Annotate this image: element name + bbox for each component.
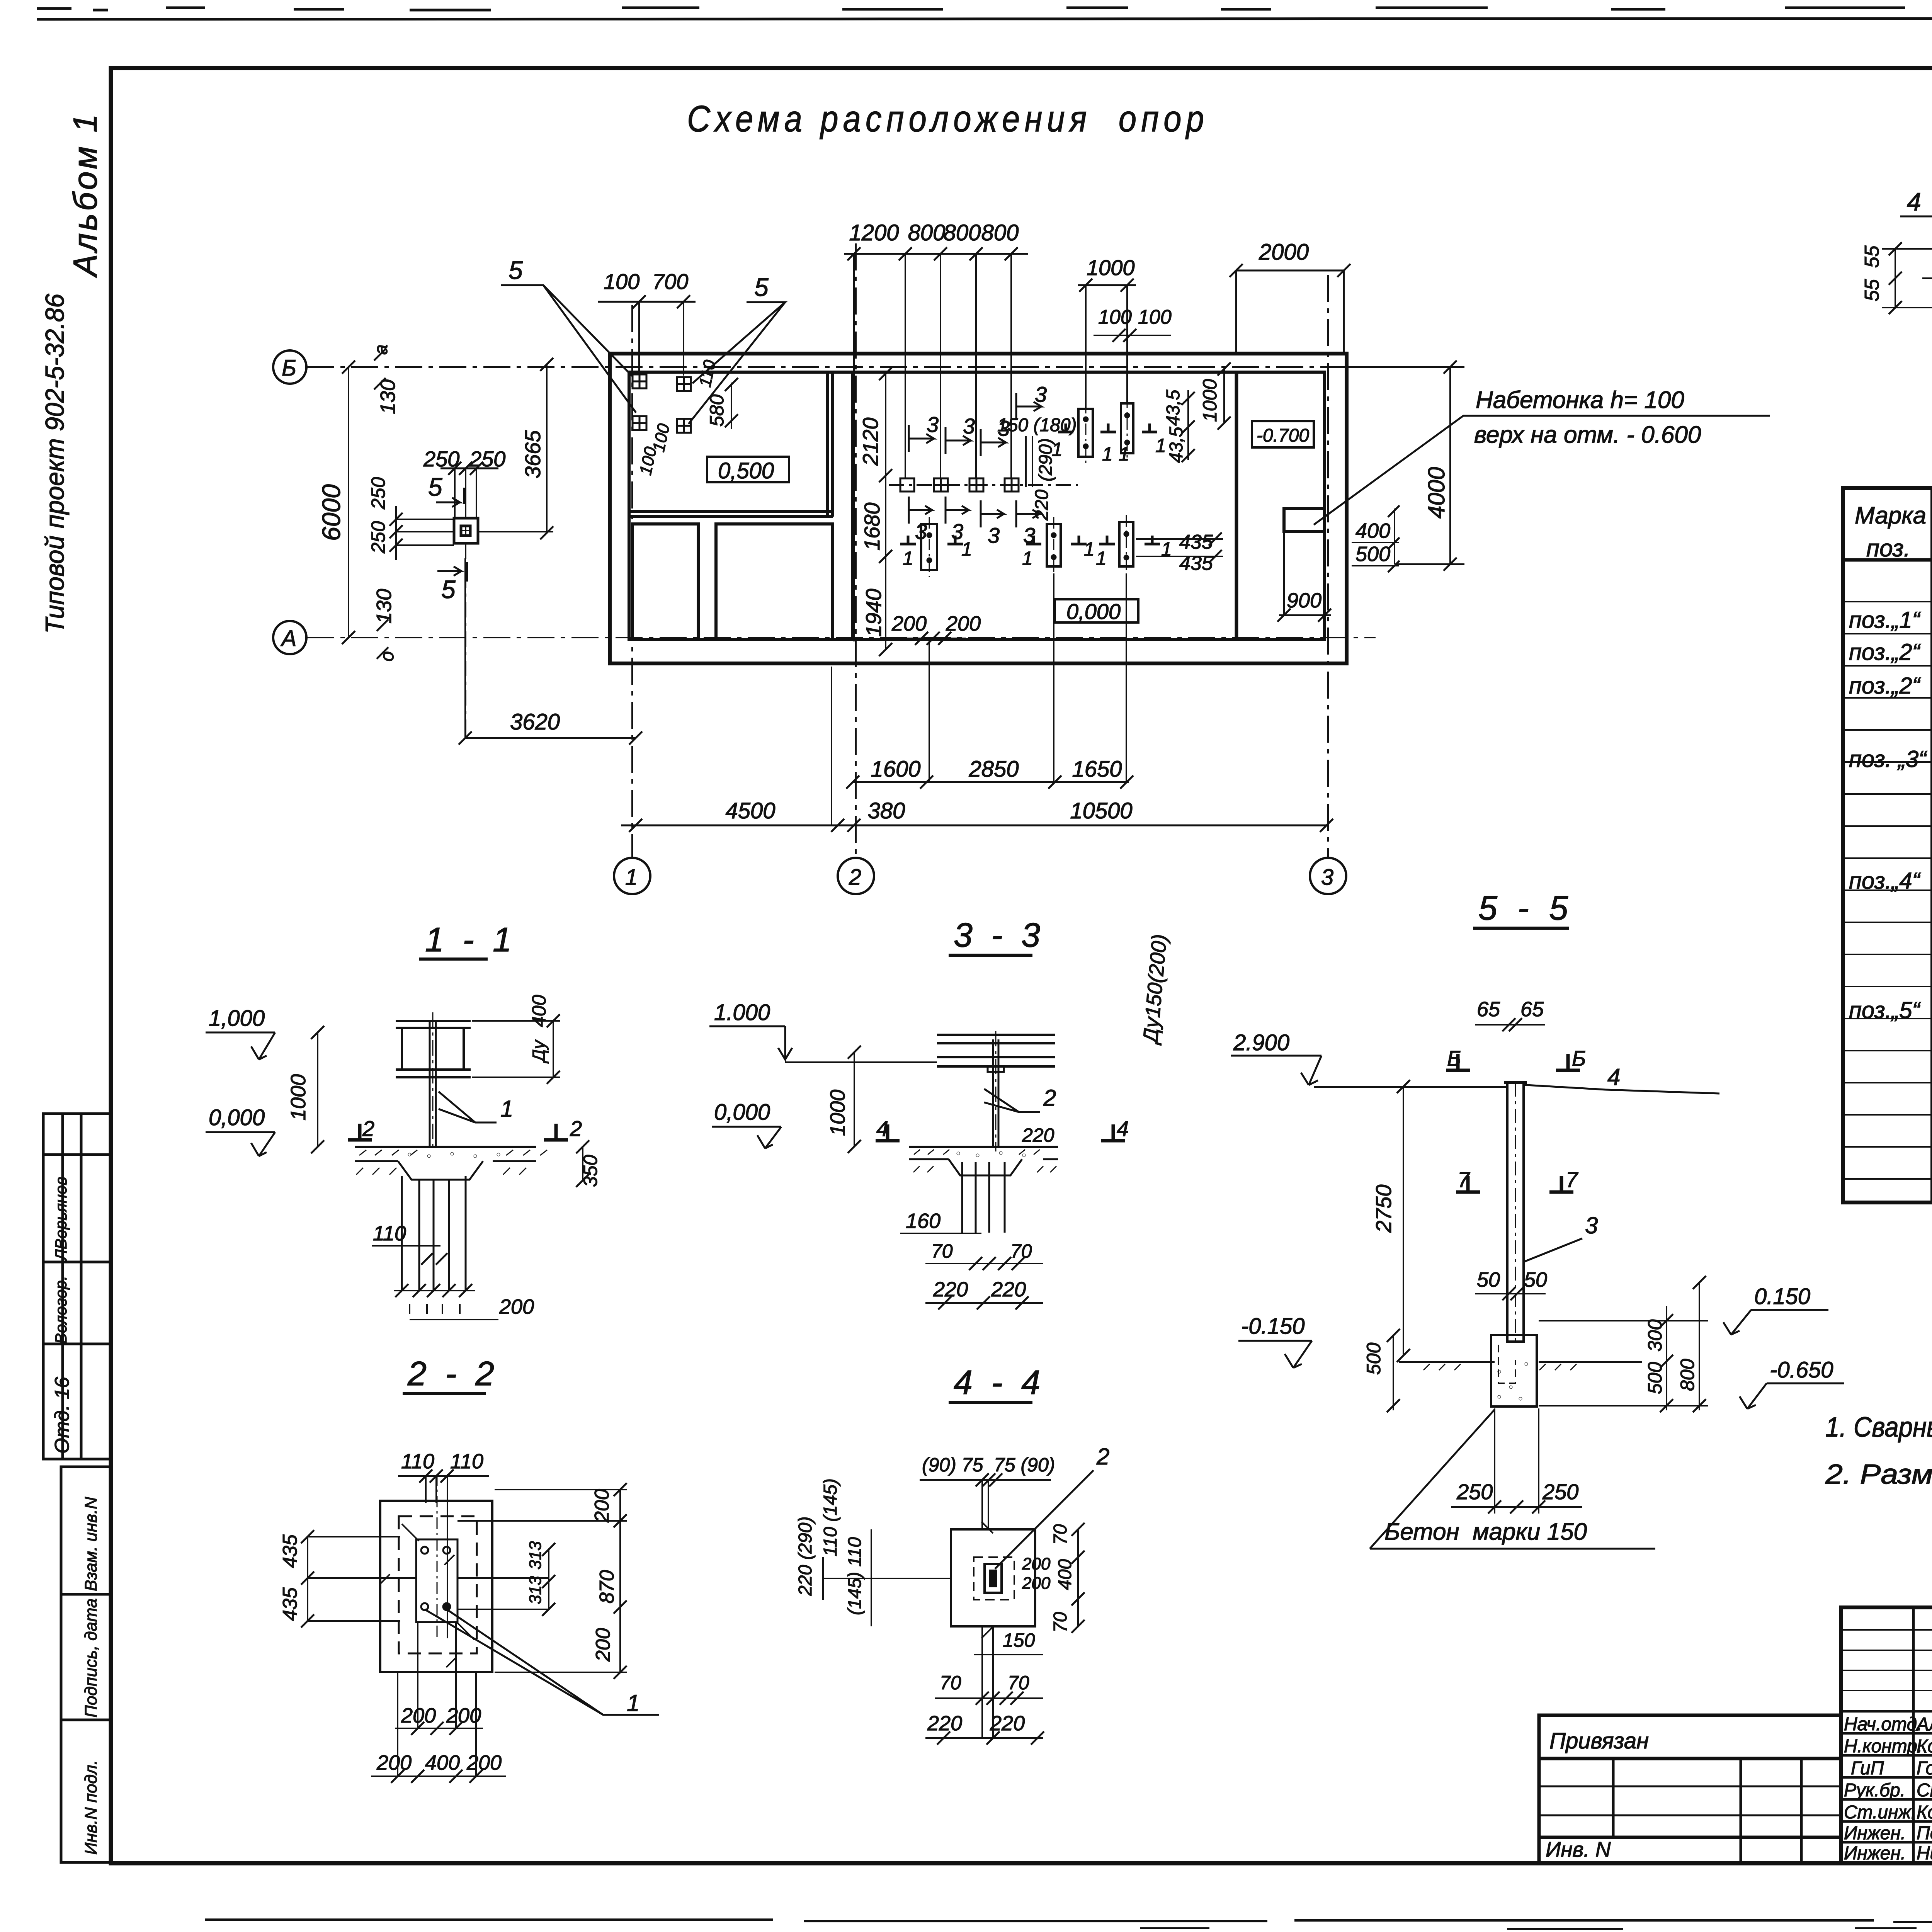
top dims 1200 800 800 800	[849, 220, 1019, 245]
svg-text:поз.„2“: поз.„2“	[1849, 639, 1921, 665]
svg-text:поз. „3“: поз. „3“	[1849, 746, 1927, 772]
svg-text:900: 900	[1287, 589, 1321, 612]
spec table body text	[1849, 605, 1932, 1168]
axis lines	[307, 243, 1376, 859]
svg-text:Ницкевич: Ницкевич	[1917, 1843, 1932, 1864]
svg-text:1,000: 1,000	[209, 1006, 265, 1031]
svg-text:50: 50	[1524, 1268, 1547, 1291]
svg-text:10500: 10500	[1070, 798, 1132, 823]
svg-text:2: 2	[849, 865, 861, 890]
svg-text:Б: Б	[282, 355, 296, 381]
left room bottom wall	[629, 510, 833, 513]
svg-text:ГиП: ГиП	[1851, 1758, 1884, 1779]
outer rect	[380, 1501, 492, 1672]
svg-text:250: 250	[1456, 1480, 1493, 1504]
svg-text:435: 435	[279, 1534, 301, 1568]
svg-text:3: 3	[1035, 382, 1047, 406]
svg-text:200: 200	[499, 1295, 534, 1318]
svg-text:поз.„2“: поз.„2“	[1849, 673, 1921, 699]
notch	[1284, 509, 1325, 532]
svg-text:Отд. 16: Отд. 16	[51, 1377, 73, 1454]
svg-text:220: 220	[1022, 1124, 1054, 1146]
svg-text:1: 1	[627, 1690, 639, 1716]
svg-text:Корнилова: Корнилова	[1917, 1736, 1932, 1757]
svg-text:7: 7	[1566, 1167, 1578, 1192]
svg-text:2850: 2850	[968, 757, 1019, 782]
svg-text:5: 5	[754, 273, 769, 301]
pos.5/middle squares row	[900, 478, 1019, 492]
pos.3 flags upper row	[909, 393, 1041, 456]
svg-text:3620: 3620	[510, 709, 560, 735]
svg-text:70: 70	[1050, 1524, 1071, 1545]
svg-text:2: 2	[570, 1116, 582, 1141]
slab	[355, 1147, 547, 1180]
svg-text:55 55: 55 55	[1861, 245, 1883, 301]
svg-text:2. Размеры в скобках даны дл: 2. Размеры в скобках даны для типа II	[1825, 1459, 1932, 1490]
4 flags	[876, 1124, 900, 1141]
svg-text:Инжен.: Инжен.	[1844, 1843, 1906, 1864]
svg-text:220: 220	[1032, 490, 1052, 521]
svg-text:250: 250	[1542, 1480, 1578, 1504]
svg-text:1200: 1200	[849, 220, 899, 245]
upper pos.1 supports	[1078, 396, 1133, 464]
partition left room right wall	[826, 372, 829, 517]
svg-text:1: 1	[1102, 443, 1113, 465]
svg-text:65: 65	[1520, 998, 1544, 1021]
svg-text:70: 70	[1008, 1672, 1029, 1694]
svg-text:1 - 1: 1 - 1	[425, 920, 516, 959]
svg-text:2750: 2750	[1371, 1184, 1396, 1233]
svg-text:Взам. инв.N: Взам. инв.N	[82, 1497, 100, 1591]
svg-text:5 - 5: 5 - 5	[1478, 889, 1573, 927]
svg-text:Инжен.: Инжен.	[1844, 1823, 1906, 1844]
middle room chain 2120/1680/1940	[885, 374, 886, 650]
svg-text:А: А	[281, 626, 297, 651]
svg-text:Гольдина: Гольдина	[1917, 1758, 1932, 1779]
svg-text:4: 4	[876, 1116, 888, 1141]
svg-text:4: 4	[1607, 1064, 1620, 1090]
svg-text:ЛВерьянов: ЛВерьянов	[52, 1177, 70, 1262]
svg-text:3 - 3: 3 - 3	[954, 916, 1045, 954]
svg-text:200: 200	[376, 1751, 412, 1774]
slab	[909, 1147, 1058, 1175]
svg-text:4 - 4: 4 - 4	[954, 1363, 1045, 1401]
svg-text:3: 3	[927, 412, 939, 437]
svg-text:220: 220	[991, 1278, 1026, 1301]
svg-text:4: 4	[1117, 1116, 1129, 1141]
svg-text:200: 200	[592, 1628, 614, 1662]
piles	[962, 1162, 1005, 1233]
svg-text:-0.650: -0.650	[1770, 1357, 1833, 1383]
svg-text:1: 1	[1022, 548, 1033, 569]
svg-text:0,500: 0,500	[718, 458, 774, 483]
axis circles	[273, 350, 1346, 894]
svg-text:Ду: Ду	[529, 1039, 549, 1064]
svg-text:220 (290): 220 (290)	[795, 1517, 816, 1596]
svg-text:400: 400	[425, 1751, 460, 1774]
svg-text:110: 110	[450, 1450, 483, 1473]
svg-text:110: 110	[401, 1450, 434, 1473]
svg-text:580: 580	[706, 394, 728, 427]
svg-text:Н.контр.: Н.контр.	[1844, 1736, 1922, 1757]
svg-text:2000: 2000	[1259, 240, 1309, 265]
bottom scan line	[205, 1920, 1932, 1922]
svg-text:200: 200	[891, 612, 927, 635]
svg-text:Схема расположения опор: Схема расположения опор	[687, 98, 1209, 139]
inner column with anchors	[381, 1474, 474, 1667]
svg-text:Рук.бр.: Рук.бр.	[1844, 1780, 1905, 1801]
svg-text:435: 435	[1179, 531, 1213, 553]
svg-text:75 (90): 75 (90)	[994, 1454, 1055, 1476]
svg-text:700: 700	[652, 269, 688, 294]
svg-text:1: 1	[1084, 538, 1095, 560]
svg-text:1: 1	[1052, 439, 1063, 460]
svg-text:Привязан: Привязан	[1549, 1728, 1649, 1753]
svg-text:2120: 2120	[858, 417, 883, 466]
svg-text:Нач.отд.: Нач.отд.	[1844, 1714, 1922, 1735]
lower pos.1 supports	[921, 515, 1133, 577]
svg-text:(90) 75: (90) 75	[922, 1454, 983, 1476]
svg-text:Ст.инж.: Ст.инж.	[1844, 1802, 1916, 1823]
left small column detail	[454, 518, 478, 543]
svg-text:(145) 110: (145) 110	[845, 1537, 865, 1615]
svg-text:3: 3	[988, 523, 1000, 548]
svg-text:50: 50	[1477, 1268, 1500, 1291]
svg-text:1000: 1000	[1087, 255, 1135, 280]
svg-text:65: 65	[1477, 998, 1500, 1021]
small verticals below	[981, 1626, 983, 1738]
svg-text:Марка: Марка	[1855, 502, 1926, 529]
beam on top	[396, 1012, 471, 1151]
inner dashed + column	[974, 1557, 1014, 1600]
left dim 55 55	[1895, 249, 1896, 308]
building walls	[610, 354, 1347, 663]
7 flags	[1456, 1176, 1480, 1192]
svg-text:1000: 1000	[826, 1090, 849, 1136]
svg-text:7: 7	[1458, 1167, 1470, 1192]
left main dim 6000 / 130	[348, 367, 349, 638]
svg-text:2.900: 2.900	[1233, 1030, 1289, 1055]
svg-text:220: 220	[927, 1712, 962, 1735]
pos.3 flags lower row	[909, 497, 1039, 527]
svg-text:Станина: Станина	[1917, 1780, 1932, 1801]
svg-text:1. Сварные швы h= 8мм электро: 1. Сварные швы h= 8мм электроды Э42 по Г…	[1825, 1412, 1932, 1443]
svg-text:70: 70	[1010, 1240, 1032, 1262]
svg-text:5: 5	[509, 256, 523, 284]
svg-text:380: 380	[868, 798, 905, 823]
svg-text:220: 220	[990, 1712, 1025, 1735]
top scan line	[37, 18, 1932, 19]
svg-text:200: 200	[466, 1751, 502, 1774]
svg-text:435: 435	[1179, 552, 1213, 575]
svg-text:3: 3	[963, 414, 975, 438]
Б flags	[1446, 1054, 1470, 1070]
pos.5 squares top-left	[633, 374, 691, 433]
svg-text:1: 1	[1119, 443, 1129, 465]
level boxes	[707, 421, 1314, 624]
svg-text:2: 2	[362, 1116, 374, 1141]
footing	[1399, 1335, 1642, 1406]
svg-text:2 - 2: 2 - 2	[407, 1354, 499, 1393]
2 flags	[348, 1124, 372, 1140]
svg-text:5: 5	[441, 575, 456, 604]
svg-text:870: 870	[596, 1570, 618, 1604]
small room A	[633, 524, 698, 639]
svg-text:1: 1	[1155, 435, 1166, 456]
outer rect with breaks	[951, 1529, 1035, 1626]
svg-text:400: 400	[528, 995, 550, 1027]
svg-text:1600: 1600	[871, 757, 920, 782]
svg-text:поз.„4“: поз.„4“	[1849, 868, 1921, 894]
spec table header text	[1855, 501, 1932, 562]
svg-text:2: 2	[1043, 1085, 1056, 1111]
bottom dim row 4500/380/10500	[725, 798, 1132, 823]
svg-text:Б: Б	[1447, 1046, 1461, 1070]
svg-text:Корнилова: Корнилова	[1917, 1802, 1932, 1823]
svg-text:110: 110	[373, 1222, 406, 1245]
svg-text:70: 70	[940, 1672, 961, 1694]
svg-text:4000: 4000	[1423, 467, 1449, 519]
svg-text:верх на отм. - 0.600: верх на отм. - 0.600	[1474, 422, 1701, 448]
svg-text:-0.700: -0.700	[1257, 425, 1309, 446]
svg-text:Полякова: Полякова	[1917, 1823, 1932, 1844]
svg-text:Бетон марки 150: Бетон марки 150	[1384, 1519, 1587, 1545]
svg-text:200: 200	[1022, 1574, 1051, 1593]
beam: twin channels	[937, 1031, 1055, 1151]
small room B	[716, 524, 833, 639]
svg-text:1940: 1940	[861, 588, 886, 637]
svg-text:Вологор.: Вологор.	[52, 1276, 70, 1344]
svg-text:150: 150	[1003, 1629, 1035, 1651]
svg-text:500: 500	[1363, 1342, 1384, 1375]
svg-text:1650: 1650	[1072, 757, 1122, 782]
svg-text:3: 3	[1585, 1213, 1598, 1238]
svg-text:3: 3	[1321, 865, 1333, 890]
svg-text:400: 400	[1355, 519, 1390, 543]
svg-text:0.150: 0.150	[1754, 1284, 1810, 1309]
piles	[394, 1176, 475, 1314]
middle room left wall	[851, 372, 854, 639]
bottom dim row 1600/2850/1650	[871, 757, 1122, 782]
svg-text:800: 800	[1677, 1359, 1698, 1391]
svg-text:1000: 1000	[287, 1074, 310, 1121]
svg-text:Типовой проект 902-5-32.86: Типовой проект 902-5-32.86	[40, 294, 70, 634]
svg-text:3665: 3665	[520, 430, 545, 478]
svg-text:1.000: 1.000	[714, 1000, 770, 1025]
4000 dim	[1449, 367, 1451, 564]
svg-text:поз.: поз.	[1866, 535, 1910, 562]
svg-text:160: 160	[906, 1209, 940, 1233]
svg-text:313: 313	[526, 1576, 545, 1604]
svg-text:2: 2	[1096, 1444, 1109, 1469]
svg-text:поз.„1“: поз.„1“	[1849, 607, 1921, 633]
svg-text:Б: Б	[1572, 1046, 1586, 1070]
svg-text:1: 1	[903, 548, 913, 569]
svg-text:-0.150: -0.150	[1241, 1314, 1304, 1339]
right partition	[1235, 372, 1238, 639]
svg-text:0,000: 0,000	[1066, 599, 1121, 624]
svg-text:100: 100	[604, 269, 639, 294]
svg-text:800: 800	[981, 220, 1019, 245]
svg-text:Инв.N подл.: Инв.N подл.	[82, 1760, 100, 1855]
svg-text:1000: 1000	[1199, 379, 1221, 422]
svg-text:200: 200	[1022, 1554, 1051, 1573]
svg-text:6000: 6000	[317, 484, 345, 541]
svg-text:70: 70	[1050, 1612, 1071, 1633]
svg-text:Инв. N: Инв. N	[1546, 1837, 1611, 1861]
svg-text:250: 250	[367, 521, 389, 554]
svg-text:1: 1	[625, 865, 638, 890]
top scan dashes	[37, 8, 1932, 10]
svg-text:130: 130	[372, 589, 396, 624]
svg-text:70: 70	[931, 1240, 953, 1262]
svg-text:100: 100	[1138, 306, 1172, 328]
svg-text:435: 435	[279, 1587, 301, 1621]
column	[1504, 1083, 1527, 1342]
svg-text:Набетонка h= 100: Набетонка h= 100	[1476, 387, 1684, 413]
svg-text:500: 500	[1355, 543, 1390, 566]
svg-text:1: 1	[500, 1096, 513, 1122]
svg-text:Подпись, дата: Подпись, дата	[82, 1599, 100, 1718]
svg-text:Альбом 1: Альбом 1	[67, 112, 104, 278]
svg-text:4: 4	[1907, 187, 1921, 216]
svg-text:5: 5	[428, 473, 442, 501]
svg-text:0,000: 0,000	[209, 1105, 265, 1130]
svg-text:1: 1	[1096, 548, 1107, 569]
svg-text:1: 1	[961, 538, 972, 560]
svg-text:100: 100	[1098, 306, 1132, 328]
svg-text:200: 200	[591, 1489, 613, 1523]
svg-text:250: 250	[367, 477, 389, 510]
svg-text:0,000: 0,000	[714, 1100, 770, 1125]
svg-text:4500: 4500	[725, 798, 775, 823]
svg-text:поз.„5“: поз.„5“	[1849, 997, 1921, 1023]
svg-text:110 (145): 110 (145)	[820, 1478, 841, 1556]
svg-text:800: 800	[908, 220, 946, 245]
svg-text:1680: 1680	[860, 502, 884, 551]
svg-text:800: 800	[944, 220, 981, 245]
svg-text:Альтшуллер: Альтшуллер	[1915, 1714, 1932, 1735]
svg-text:43,5: 43,5	[1163, 389, 1184, 426]
